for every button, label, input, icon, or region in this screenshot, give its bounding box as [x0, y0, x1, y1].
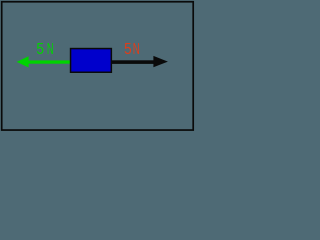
svg-text:5: 5	[124, 41, 132, 58]
svg-text:5: 5	[36, 41, 44, 58]
black arrowhead (rightward tip)	[153, 56, 168, 67]
green arrowhead (leftward tip)	[17, 56, 29, 67]
svg-text:N: N	[47, 41, 54, 58]
wire: black arrow shaft (5N force, rightward)	[111, 60, 154, 64]
block: blue box with black border	[71, 49, 112, 73]
frame border	[2, 2, 194, 130]
wire: green arrow shaft (5 N force, leftward)	[26, 60, 71, 63]
svg-text:N: N	[133, 41, 140, 58]
